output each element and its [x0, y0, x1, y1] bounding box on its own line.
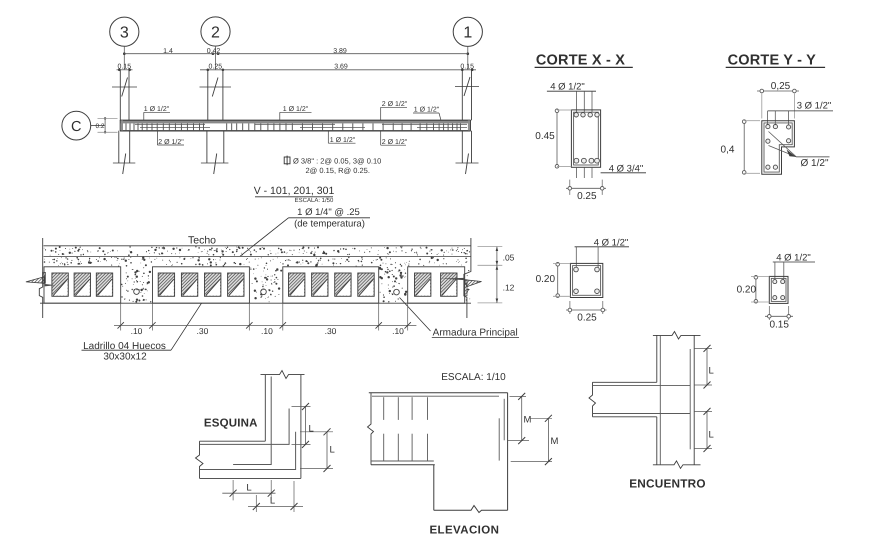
beam bottom rebar lines	[140, 127, 210, 129]
encuentro beam left break	[589, 382, 596, 417]
esquina dim L upper right	[292, 406, 311, 408]
column section 15x20 bars	[773, 280, 777, 284]
svg-text:3.69: 3.69	[334, 64, 348, 71]
encuentro column outline	[656, 335, 658, 382]
elevacion right bars	[503, 399, 505, 441]
svg-text:ENCUENTRO: ENCUENTRO	[629, 477, 706, 491]
column section X-X top bars	[574, 113, 578, 117]
column C3 lower break	[113, 162, 135, 164]
svg-text:1: 1	[463, 25, 472, 42]
column C2 lower	[206, 131, 208, 163]
grid leader 2	[215, 46, 217, 70]
svg-text:0,4: 0,4	[721, 144, 735, 155]
elevacion beam bottom	[371, 460, 434, 462]
svg-text:L: L	[330, 445, 335, 456]
column C1 lower	[461, 131, 463, 163]
svg-text:1 Ø 1/2": 1 Ø 1/2"	[144, 105, 170, 113]
slab right break horn	[464, 280, 482, 287]
column section 25x20 stirrup	[573, 266, 601, 296]
svg-text:3: 3	[120, 25, 129, 42]
svg-text:(de temperatura): (de temperatura)	[294, 218, 365, 229]
elevacion column	[433, 465, 435, 511]
label diam 1/2 leader (corte Y-Y)	[769, 132, 797, 157]
svg-text:CORTE X - X: CORTE X - X	[536, 52, 625, 68]
svg-text:.05: .05	[503, 252, 515, 262]
esquina dim L right	[300, 431, 333, 433]
dimension 0.15 (section 15x20)	[768, 306, 770, 320]
grid circle 3	[110, 17, 139, 46]
esquina bar C	[200, 432, 296, 470]
encuentro dim L lower	[694, 410, 712, 412]
grid circle 2	[201, 17, 230, 46]
encuentro top break	[653, 332, 701, 340]
elevacion dim M 1	[510, 395, 527, 397]
column section 15x20 stirrup	[771, 278, 786, 301]
column section 25x20 bars	[574, 267, 579, 272]
svg-text:2 Ø 1/2": 2 Ø 1/2"	[382, 100, 408, 108]
stirrup note symbol	[284, 157, 290, 164]
svg-text:1 Ø 1/2": 1 Ø 1/2"	[330, 136, 356, 144]
column section Y-Y stirrup	[764, 123, 792, 172]
svg-text:30x30x12: 30x30x12	[103, 351, 147, 362]
svg-text:0.15: 0.15	[769, 319, 789, 330]
encuentro column bar right	[689, 349, 691, 449]
dimension 0.20 (section 15x20)	[755, 276, 757, 302]
column C2 lower break	[201, 162, 229, 164]
svg-text:L: L	[709, 366, 714, 377]
dimension line 0.25 / 3.69 / 0.15	[200, 69, 476, 71]
esquina dim L bottom 1	[232, 480, 234, 500]
brick group 2	[153, 267, 250, 303]
svg-text:L: L	[270, 496, 275, 507]
column section Y-Y outline	[762, 121, 795, 175]
svg-text:M: M	[524, 415, 532, 426]
svg-text:.12: .12	[503, 282, 515, 292]
slab right break spike	[441, 278, 464, 280]
dimension line 0.15 (grid 3)	[117, 69, 133, 71]
slab left break spike	[45, 284, 56, 286]
joist rebar circles	[134, 289, 140, 295]
elevacion left edge with break	[368, 393, 374, 465]
column C3 upper	[119, 70, 121, 120]
encuentro dim L upper	[694, 347, 712, 349]
grid circle C	[62, 111, 91, 140]
svg-text:ESCALA: 1/10: ESCALA: 1/10	[441, 372, 506, 383]
svg-text:Techo: Techo	[188, 234, 216, 246]
svg-text:.10: .10	[131, 326, 143, 336]
svg-text:2 Ø 1/2": 2 Ø 1/2"	[382, 138, 408, 146]
svg-text:ESQUINA: ESQUINA	[204, 417, 258, 429]
svg-text:1 Ø 1/2": 1 Ø 1/2"	[414, 105, 440, 113]
svg-text:0.20: 0.20	[536, 274, 556, 285]
elevacion column bars upper	[383, 397, 385, 420]
svg-text:0.42: 0.42	[207, 48, 221, 55]
svg-text:0.25: 0.25	[577, 312, 597, 323]
svg-text:2@ 0.15, R@ 0.25.: 2@ 0.15, R@ 0.25.	[306, 166, 370, 175]
column C1 lower break	[456, 162, 479, 164]
esquina bar A	[200, 409, 289, 445]
dimension 0,4 (corte Y-Y)	[743, 121, 745, 174]
svg-text:0.2: 0.2	[95, 123, 104, 130]
concrete speckles	[44, 246, 471, 303]
svg-text:.10: .10	[261, 326, 273, 336]
svg-text:CORTE Y - Y: CORTE Y - Y	[728, 52, 817, 68]
brick group 1	[44, 267, 121, 303]
column section 25x20 outline	[570, 263, 602, 297]
svg-text:L: L	[309, 424, 314, 435]
svg-text:ESCALA: 1/50: ESCALA: 1/50	[295, 197, 334, 204]
svg-text:.10: .10	[392, 326, 404, 336]
svg-text:0.25: 0.25	[577, 191, 597, 202]
slab left break line	[39, 238, 42, 318]
column section X-X bottom bars	[574, 158, 579, 163]
column C2 upper	[207, 70, 209, 120]
beam right end	[470, 120, 472, 131]
grid circle 1	[453, 17, 482, 46]
svg-text:C: C	[71, 119, 81, 135]
slab bottom dimension chain	[120, 303, 122, 330]
elevacion top outline	[369, 392, 508, 394]
dimension 0.25 (section 25x20)	[569, 301, 571, 314]
esquina vertical member outline	[264, 375, 266, 442]
svg-text:M: M	[551, 436, 559, 447]
svg-text:1.4: 1.4	[163, 48, 173, 55]
column C3 lower	[118, 131, 120, 163]
beam left end	[119, 120, 121, 131]
svg-text:4 Ø 1/2": 4 Ø 1/2"	[550, 81, 585, 92]
column C1 upper	[461, 70, 463, 120]
dimension line 1.4 / 0.42 / 3.89	[124, 53, 468, 55]
slab right break line	[464, 238, 471, 318]
brick group 3	[283, 267, 379, 303]
column section X-X stirrup	[574, 112, 599, 165]
esquina bar B	[233, 377, 271, 465]
slab right dimension .05 .12	[478, 246, 503, 248]
slab topping lines	[44, 245, 472, 247]
svg-text:0.15: 0.15	[460, 64, 474, 71]
svg-text:1 Ø 1/4" @ .25: 1 Ø 1/4" @ .25	[297, 207, 360, 218]
dimension 0.45 (corte X-X)	[556, 110, 558, 167]
esquina dim L bottom 2	[255, 495, 257, 512]
beam stirrup ticks	[126, 123, 460, 130]
grid C leader	[91, 124, 105, 126]
column section 15x20 outline	[769, 276, 788, 303]
svg-text:3.89: 3.89	[333, 48, 347, 55]
svg-text:Ø 1/2": Ø 1/2"	[800, 158, 828, 169]
encuentro bottom break	[653, 461, 701, 469]
column section X-X outline	[571, 110, 600, 167]
esquina horizontal member outline	[200, 440, 266, 442]
encuentro column bar left	[659, 335, 661, 464]
svg-text:2 Ø 1/2": 2 Ø 1/2"	[158, 138, 184, 146]
svg-text:0.15: 0.15	[117, 64, 131, 71]
svg-text:3 Ø 1/2": 3 Ø 1/2"	[797, 100, 832, 111]
grid leader 1	[467, 46, 469, 69]
dimension 0.20 (section 25x20)	[557, 263, 559, 296]
slab left break horn	[26, 277, 45, 284]
encuentro beam bars	[593, 385, 691, 387]
column C1 upper break	[455, 86, 479, 88]
svg-text:L: L	[709, 429, 714, 440]
encuentro beam outline	[593, 381, 657, 383]
svg-text:0.45: 0.45	[535, 131, 555, 142]
dimension 0.25 (corte X-X)	[569, 180, 571, 195]
svg-text:Ø 3/8" : 2@ 0.05, 3@ 0.10: Ø 3/8" : 2@ 0.05, 3@ 0.10	[293, 156, 381, 165]
svg-text:ELEVACION: ELEVACION	[429, 524, 499, 536]
slab right break hatch strip	[464, 280, 467, 296]
elevacion dim M 2	[530, 417, 552, 419]
column section Y-Y bars	[766, 125, 770, 129]
slab left break hatch strip	[43, 272, 46, 283]
slab soffit line	[40, 302, 471, 304]
svg-text:Armadura Principal: Armadura Principal	[433, 327, 518, 338]
esquina left break	[196, 441, 204, 478]
column C3 upper break	[112, 86, 137, 88]
brick group 4	[408, 267, 465, 303]
svg-text:0,25: 0,25	[771, 81, 791, 92]
beam V-101 body	[120, 120, 471, 123]
svg-text:1 Ø 1/2": 1 Ø 1/2"	[283, 105, 309, 113]
esquina top break	[261, 371, 305, 379]
elevacion column bars lower	[383, 434, 385, 461]
svg-text:2: 2	[211, 24, 220, 41]
svg-text:V - 101, 201, 301: V - 101, 201, 301	[254, 185, 335, 197]
svg-text:0.25: 0.25	[208, 64, 222, 71]
beam top rebar lines	[135, 123, 205, 125]
column C2 upper break	[200, 86, 232, 88]
svg-text:L: L	[246, 482, 251, 493]
svg-text:.30: .30	[196, 326, 208, 336]
svg-text:.30: .30	[325, 326, 337, 336]
svg-text:0.20: 0.20	[737, 284, 757, 295]
grid leader 3	[123, 46, 125, 70]
dimension 0.2 beam depth	[104, 118, 106, 132]
